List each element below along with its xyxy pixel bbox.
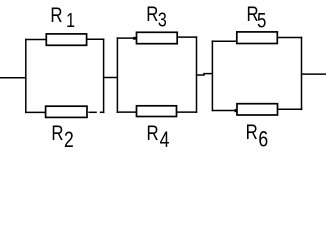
wire: link block1 to block2 xyxy=(103,77,118,79)
wire: block2 right vertical xyxy=(196,36,198,113)
wire: left input lead xyxy=(0,77,27,79)
resistor R3 xyxy=(137,32,178,43)
label R1 xyxy=(50,4,75,31)
svg-text:R: R xyxy=(50,4,62,27)
label R4 xyxy=(147,122,170,152)
wire: block1 top-left rail xyxy=(25,39,46,41)
svg-text:R: R xyxy=(51,122,63,145)
resistor R4 xyxy=(137,106,177,117)
wire: block3 bottom-left rail xyxy=(212,110,238,112)
svg-text:4: 4 xyxy=(160,128,170,152)
wire: block2 bottom-right rail xyxy=(177,111,198,113)
wire: block1 left vertical xyxy=(25,39,27,113)
junction: R3 left terminal blob xyxy=(133,37,137,40)
wire: block1 bottom-right rail (broken dashes) xyxy=(88,111,96,113)
wire: block2 left vertical xyxy=(116,37,118,113)
wire: block1 bottom-left rail xyxy=(25,111,46,113)
wire: block1 right vertical xyxy=(103,38,105,113)
wire: block2 bottom-left rail xyxy=(117,111,137,113)
svg-text:2: 2 xyxy=(64,128,74,152)
label R3 xyxy=(146,3,167,31)
resistor R5 xyxy=(237,32,277,44)
svg-text:R: R xyxy=(246,121,258,144)
label R6 xyxy=(246,121,269,152)
svg-text:3: 3 xyxy=(158,9,167,31)
resistor R2 xyxy=(46,106,87,117)
svg-text:6: 6 xyxy=(258,128,268,152)
resistor R1 xyxy=(46,34,86,45)
svg-text:R: R xyxy=(147,122,159,145)
resistor R6 xyxy=(237,104,278,115)
wire: block3 top-left rail xyxy=(212,40,238,42)
label R5 xyxy=(247,3,267,33)
wire: block1 top-right rail xyxy=(87,38,105,40)
svg-text:1: 1 xyxy=(66,9,75,31)
wire: block2 top-left rail xyxy=(117,37,137,39)
wire: block3 left vertical xyxy=(211,40,213,111)
wire: block3 bottom-right rail xyxy=(278,108,303,110)
label R2 xyxy=(51,122,73,152)
wire: link block2 to block3 (jogged) xyxy=(196,74,213,75)
wire: right output lead xyxy=(301,73,326,75)
svg-text:5: 5 xyxy=(257,10,266,33)
wire: block2 top-right rail xyxy=(177,36,197,38)
wire: block3 right vertical xyxy=(301,37,303,111)
wire: block3 top-right rail xyxy=(277,37,302,39)
junction: R6 left terminal blob xyxy=(235,109,238,112)
svg-text:R: R xyxy=(146,3,158,26)
